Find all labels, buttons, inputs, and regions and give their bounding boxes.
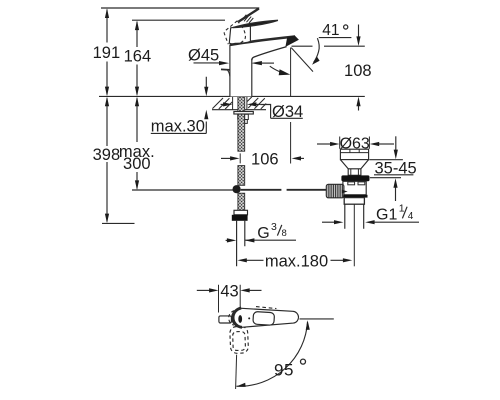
svg-text:164: 164 <box>124 48 152 66</box>
svg-text:8: 8 <box>282 228 287 239</box>
hose connector collar <box>234 210 248 215</box>
svg-text:106: 106 <box>251 150 279 168</box>
pull-rod knurled knob <box>326 184 344 198</box>
angle arc <box>314 38 320 62</box>
dimension 106 <box>221 48 304 169</box>
drain rim <box>340 149 368 159</box>
handle alternate position (dashed) <box>224 21 245 44</box>
svg-text:108: 108 <box>344 62 372 80</box>
flow direction ray <box>291 48 313 72</box>
lever stick (raised position) <box>239 9 259 24</box>
dimension Ø63 <box>317 136 394 153</box>
handle cap (lever) <box>233 20 278 27</box>
drain flange <box>341 175 369 181</box>
mounting washer <box>234 112 253 115</box>
svg-text:41: 41 <box>322 22 339 39</box>
dimension G1 1/4 <box>322 203 419 225</box>
faucet spout <box>230 35 299 60</box>
bottom view: dimension 43 <box>197 282 262 312</box>
handle button <box>253 311 275 325</box>
faucet shank (threaded, below deck) <box>233 96 247 151</box>
deck (counter top) <box>212 97 266 110</box>
pivot slot <box>238 315 242 323</box>
svg-text:191: 191 <box>93 44 121 62</box>
svg-text:3: 3 <box>271 221 277 233</box>
reference line deck datum <box>99 95 365 97</box>
bottom view: handle stub <box>219 316 232 323</box>
svg-text:300: 300 <box>123 155 151 173</box>
hose connector nut <box>232 215 248 221</box>
aerator hook <box>221 69 230 76</box>
dimension 35-45 <box>369 136 416 201</box>
dimension 398 <box>93 97 121 224</box>
dashed pivot arc <box>229 311 235 326</box>
dimension Ø45 <box>188 47 274 65</box>
dimension max.30 <box>151 77 209 136</box>
pop-up rod (horizontal) <box>241 189 331 191</box>
supply hose lower segment <box>238 193 245 210</box>
svg-text:G1: G1 <box>376 206 397 223</box>
svg-text:43: 43 <box>220 282 238 300</box>
reference line top (191 datum) <box>101 7 259 9</box>
svg-text:1: 1 <box>399 203 405 215</box>
handle block <box>229 25 250 44</box>
drain lower dark band <box>343 195 367 198</box>
dashes on capsule top <box>256 307 276 309</box>
bottom view: handle alternate position (dashed, rotated down) <box>230 326 249 353</box>
small dot <box>248 317 250 319</box>
drain collar <box>348 169 361 176</box>
svg-text:95: 95 <box>274 360 294 379</box>
svg-text:Ø45: Ø45 <box>188 47 219 65</box>
extension line spout tip <box>290 48 292 164</box>
drain: Ø63 extension lines <box>340 137 370 149</box>
svg-text:Ø34: Ø34 <box>272 103 303 121</box>
reference line max300 bottom datum <box>132 189 237 191</box>
flow leader arrow <box>270 66 291 75</box>
faucet body <box>230 44 252 96</box>
dimension G 3/8 <box>226 221 296 242</box>
drain step <box>344 198 364 205</box>
mounting nut <box>237 114 239 120</box>
rod end arrow inside drain <box>342 190 348 193</box>
dimension Ø34 (deck hole) <box>221 102 304 121</box>
dimension max.180 <box>237 252 352 270</box>
dimension 108 <box>292 25 372 111</box>
svg-text:G: G <box>257 225 269 242</box>
svg-text:max.180: max.180 <box>265 252 328 270</box>
drain centerline extension <box>353 204 355 266</box>
drain tailpipe <box>345 204 364 229</box>
reference line 398 bottom datum <box>102 222 135 224</box>
dimension 191 <box>93 8 121 96</box>
drain upper body with slots <box>343 181 366 195</box>
nut step <box>245 120 248 124</box>
dimension max.300 <box>119 97 155 190</box>
dimension 164 <box>124 21 152 97</box>
supply hose upper segment <box>238 166 245 186</box>
dimension 95 degrees <box>236 319 334 389</box>
pull-rod junction dot <box>233 185 241 193</box>
drain cone <box>340 160 368 169</box>
reference line 164 datum <box>132 19 225 21</box>
svg-text:4: 4 <box>408 211 414 222</box>
svg-text:398: 398 <box>93 146 121 164</box>
supply pipe <box>237 221 245 266</box>
dimension 41 degrees <box>291 22 351 72</box>
bottom view: handle capsule <box>229 307 299 328</box>
hose break centerline <box>239 153 241 163</box>
